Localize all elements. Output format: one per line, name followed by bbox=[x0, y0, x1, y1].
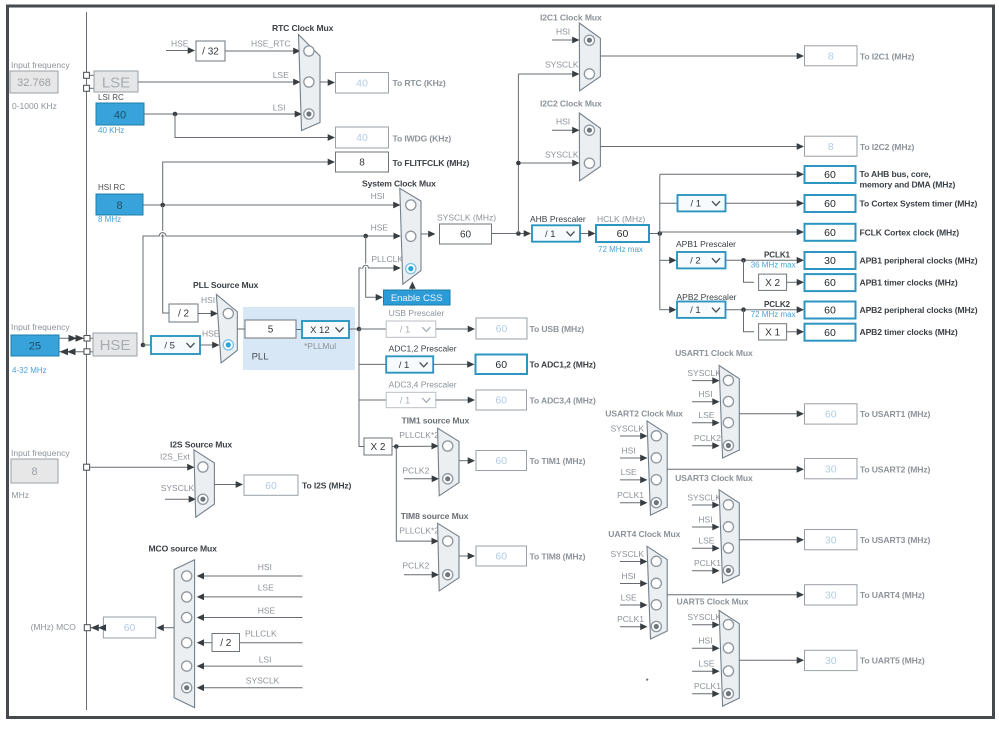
label 0-1000 KHz bbox=[12, 101, 57, 111]
signal labels USART2 bbox=[611, 423, 648, 506]
input box 25 bbox=[11, 335, 59, 356]
label PCLK1 bbox=[764, 251, 791, 260]
svg-text:LSE: LSE bbox=[102, 75, 130, 92]
output box APB2 timer bbox=[805, 324, 856, 341]
svg-text:To I2C1 (MHz): To I2C1 (MHz) bbox=[860, 52, 915, 62]
wire X1 to APB2 timer box bbox=[787, 328, 804, 335]
label To UART4 (MHz) bbox=[860, 590, 925, 600]
svg-text:HSI: HSI bbox=[698, 636, 712, 646]
label To UART5 (MHz) bbox=[860, 656, 925, 666]
svg-text:I2S Source Mux: I2S Source Mux bbox=[170, 440, 232, 450]
svg-text:60: 60 bbox=[124, 622, 136, 634]
label (MHz) MCO bbox=[31, 622, 77, 632]
wire to FCLK box bbox=[660, 229, 804, 236]
label PLLCLK*2 (TIM1) bbox=[399, 430, 439, 440]
svg-text:SYSCLK: SYSCLK bbox=[246, 676, 280, 686]
svg-text:HSI RC: HSI RC bbox=[98, 183, 125, 192]
label HSE bbox=[371, 223, 389, 233]
label UART4 Clock Mux bbox=[608, 529, 680, 539]
wire MCO mux to box bbox=[157, 624, 175, 631]
wire HSE to div5 bbox=[143, 344, 151, 346]
wire HSI to div2 bbox=[158, 205, 170, 313]
svg-text:To USB (MHz): To USB (MHz) bbox=[530, 324, 585, 334]
output box To AHB bbox=[805, 166, 856, 183]
wire 25 to HSE port bbox=[59, 335, 84, 342]
svg-text:HSE: HSE bbox=[100, 337, 131, 354]
svg-text:PCLK2: PCLK2 bbox=[402, 561, 429, 571]
label HSE_RTC bbox=[251, 39, 291, 49]
svg-text:HSI: HSI bbox=[556, 27, 570, 37]
wire LSE to RTC mux bbox=[138, 79, 301, 86]
wire 5 to X12 bbox=[296, 329, 302, 331]
svg-text:LSI RC: LSI RC bbox=[98, 93, 124, 102]
label USART3 Clock Mux bbox=[675, 473, 753, 483]
value box PLL input 5 bbox=[245, 320, 296, 338]
svg-text:8 MHz: 8 MHz bbox=[98, 215, 121, 224]
input box 32.768 bbox=[10, 71, 58, 93]
svg-text:PLLCLK: PLLCLK bbox=[371, 254, 403, 264]
svg-text:To USART3 (MHz): To USART3 (MHz) bbox=[860, 535, 931, 545]
svg-text:To TIM1 (MHz): To TIM1 (MHz) bbox=[530, 456, 586, 466]
svg-text:PCLK1: PCLK1 bbox=[694, 558, 721, 568]
output box To UART5 bbox=[805, 650, 858, 670]
wire PCLK2 to X1 bbox=[744, 310, 755, 332]
wire HSE port out bbox=[59, 348, 84, 355]
oscillator LSE bbox=[94, 71, 138, 92]
svg-text:memory and DMA (MHz): memory and DMA (MHz) bbox=[860, 180, 956, 190]
svg-text:LSE: LSE bbox=[621, 467, 637, 477]
svg-text:/ 1: / 1 bbox=[690, 199, 701, 210]
label SYSCLK (I2C1) bbox=[545, 60, 579, 70]
mux USART2 Clock Mux bbox=[647, 421, 667, 515]
dropdown ADC12 /1 bbox=[386, 356, 433, 372]
svg-text:60: 60 bbox=[824, 227, 836, 239]
label Input frequency (LSE) bbox=[11, 60, 70, 70]
dropdown /5 prediv bbox=[151, 336, 200, 354]
svg-text:LSE: LSE bbox=[258, 583, 274, 593]
label HSI (MCO) bbox=[258, 562, 272, 572]
svg-text:TIM1 source Mux: TIM1 source Mux bbox=[402, 416, 470, 426]
label ADC34 Prescaler bbox=[389, 380, 457, 390]
label 72 MHz max (HCLK) bbox=[598, 245, 643, 254]
output box To ADC12 bbox=[476, 355, 528, 375]
svg-text:HSI: HSI bbox=[698, 514, 712, 524]
chip boundary line bbox=[86, 12, 88, 710]
wire PLLCLK to div2 MCO bbox=[197, 639, 212, 646]
wire div2 to pll mux bbox=[198, 310, 218, 317]
svg-text:60: 60 bbox=[824, 169, 836, 181]
label PLLCLK*2 (TIM8) bbox=[399, 526, 439, 536]
wire LSI to RTC mux bbox=[144, 111, 302, 118]
wire HSI stub I2C2 bbox=[552, 127, 580, 134]
svg-text:To RTC (KHz): To RTC (KHz) bbox=[393, 78, 446, 88]
output box To TIM1 bbox=[476, 451, 527, 471]
svg-text:30: 30 bbox=[824, 255, 836, 267]
svg-text:8: 8 bbox=[828, 141, 834, 153]
label PLLCLK bbox=[371, 254, 403, 264]
label AHB Prescaler bbox=[530, 214, 586, 224]
output box APB1 peripheral bbox=[805, 252, 856, 269]
mux I2C2 Clock Mux bbox=[579, 113, 600, 181]
value box SYSCLK bbox=[440, 224, 492, 244]
label RTC Clock Mux bbox=[272, 23, 334, 33]
svg-text:/ 2: / 2 bbox=[178, 309, 190, 320]
svg-text:ADC1,2 Prescaler: ADC1,2 Prescaler bbox=[389, 344, 457, 354]
svg-text:HSI: HSI bbox=[556, 117, 570, 127]
wire I2S_Ext to mux bbox=[90, 464, 195, 471]
wire HSI to FLITFCLK bbox=[163, 159, 335, 205]
label To IWDG (KHz) bbox=[393, 134, 452, 144]
label MCO source Mux bbox=[149, 544, 218, 554]
label HSE stub bbox=[171, 39, 189, 49]
svg-text:SYSCLK: SYSCLK bbox=[545, 150, 579, 160]
mux TIM8 source Mux bbox=[438, 523, 459, 591]
divider /2 (MCO) bbox=[212, 634, 240, 652]
svg-text:Input frequency: Input frequency bbox=[11, 322, 70, 332]
output box To UART4 bbox=[805, 585, 858, 605]
svg-text:HSI: HSI bbox=[698, 389, 712, 399]
svg-text:APB2 peripheral clocks (MHz): APB2 peripheral clocks (MHz) bbox=[860, 305, 978, 315]
label To RTC (KHz) bbox=[393, 78, 446, 88]
svg-text:I2C1 Clock Mux: I2C1 Clock Mux bbox=[540, 13, 602, 23]
output box To I2C2 bbox=[805, 136, 858, 156]
label PLLCLK (MCO) bbox=[245, 629, 277, 639]
output box To RTC bbox=[336, 73, 389, 94]
svg-text:8: 8 bbox=[31, 466, 37, 478]
wire LSE to MCO bbox=[197, 594, 303, 601]
mux UART5 Clock Mux bbox=[719, 611, 739, 707]
wire ADC34 to box bbox=[436, 397, 475, 404]
label UART5 Clock Mux bbox=[677, 597, 749, 607]
svg-text:SYSCLK: SYSCLK bbox=[545, 60, 579, 70]
svg-text:32.768: 32.768 bbox=[17, 77, 51, 89]
wire USART2 mux to box bbox=[667, 466, 804, 473]
svg-text:30: 30 bbox=[825, 589, 837, 601]
output box To Cortex timer bbox=[805, 195, 856, 212]
svg-text:To USART2 (MHz): To USART2 (MHz) bbox=[860, 465, 931, 475]
wire AHB to HCLK bbox=[580, 230, 596, 237]
label PCLK2 (TIM1) bbox=[402, 466, 429, 476]
wire MCO box to port bbox=[90, 624, 106, 631]
wire trunk to USB prescaler bbox=[359, 328, 386, 330]
mux I2C1 Clock Mux bbox=[579, 23, 600, 91]
wire X2 to TIM1 mux bbox=[392, 443, 439, 450]
label FCLK Cortex clock bbox=[860, 228, 960, 238]
wire pll mux to mul input bbox=[237, 328, 245, 330]
svg-text:/ 32: / 32 bbox=[202, 47, 219, 58]
wire X2 to TIM8 mux bbox=[396, 447, 439, 545]
svg-text:To AHB bus, core,: To AHB bus, core, bbox=[860, 169, 931, 179]
label To TIM1 (MHz) bbox=[530, 456, 586, 466]
label HSI (pll) bbox=[201, 295, 215, 305]
svg-text:APB1 peripheral clocks (MHz): APB1 peripheral clocks (MHz) bbox=[860, 256, 978, 266]
label I2C2 Clock Mux bbox=[540, 99, 602, 109]
divider /2 (PLL) bbox=[169, 304, 198, 322]
svg-text:USART3 Clock Mux: USART3 Clock Mux bbox=[675, 473, 753, 483]
svg-text:60: 60 bbox=[495, 395, 507, 407]
svg-text:/ 1: / 1 bbox=[690, 305, 701, 316]
output box To USART2 bbox=[805, 459, 858, 479]
svg-text:Enable CSS: Enable CSS bbox=[391, 293, 443, 304]
wire HSE to MCO bbox=[197, 614, 303, 621]
wire cortex to box bbox=[726, 200, 805, 207]
svg-text:25: 25 bbox=[29, 341, 41, 353]
output box To USART1 bbox=[805, 404, 858, 424]
svg-text:Input frequency: Input frequency bbox=[11, 448, 70, 458]
svg-text:Input frequency: Input frequency bbox=[11, 60, 70, 70]
svg-text:60: 60 bbox=[824, 277, 836, 289]
oscillator HSE bbox=[93, 333, 137, 356]
svg-text:HSI: HSI bbox=[622, 571, 636, 581]
svg-text:HSI: HSI bbox=[622, 445, 636, 455]
wire trunk to ADC12 prescaler bbox=[359, 363, 386, 365]
svg-text:LSE: LSE bbox=[621, 592, 637, 602]
wire SYSCLK to I2C2 bbox=[518, 160, 579, 167]
svg-text:X 1: X 1 bbox=[765, 327, 780, 338]
output box To TIM8 bbox=[476, 546, 527, 566]
wire SYSCLK to MCO bbox=[197, 684, 303, 691]
wire PCLK1 bbox=[726, 257, 805, 264]
svg-text:To UART4 (MHz): To UART4 (MHz) bbox=[860, 590, 925, 600]
port LSE in bbox=[84, 72, 94, 78]
svg-text:36 MHz max: 36 MHz max bbox=[751, 261, 796, 270]
wire CSS from HSE bbox=[366, 236, 383, 301]
label SYSCLK (MHz) bbox=[437, 213, 496, 223]
wire SYSCLK to AHB prescaler bbox=[492, 230, 532, 237]
svg-text:8: 8 bbox=[828, 50, 834, 62]
output box MCO bbox=[103, 617, 155, 638]
port HSE out bbox=[84, 349, 94, 355]
svg-text:0-1000 KHz: 0-1000 KHz bbox=[12, 101, 57, 111]
label To ADC12 (MHz) bbox=[530, 360, 596, 370]
oscillator LSI bbox=[96, 103, 144, 125]
svg-text:40: 40 bbox=[356, 132, 368, 144]
svg-text:PLLCLK*2: PLLCLK*2 bbox=[399, 526, 439, 536]
svg-text:APB2 Prescaler: APB2 Prescaler bbox=[677, 292, 737, 302]
label APB2 peripheral clocks bbox=[860, 305, 978, 315]
label HCLK (MHz) bbox=[597, 214, 645, 224]
wire LSI to IWDG bbox=[175, 114, 335, 141]
svg-text:To FLITFCLK (MHz): To FLITFCLK (MHz) bbox=[393, 158, 470, 168]
svg-text:To ADC1,2 (MHz): To ADC1,2 (MHz) bbox=[530, 360, 596, 370]
svg-text:HSI: HSI bbox=[201, 295, 215, 305]
label To I2C1 (MHz) bbox=[860, 52, 915, 62]
svg-text:60: 60 bbox=[824, 198, 836, 210]
label Input frequency (I2S) bbox=[11, 448, 70, 458]
svg-text:30: 30 bbox=[825, 534, 837, 546]
label SYSCLK (I2C2) bbox=[545, 150, 579, 160]
svg-text:SYSCLK (MHz): SYSCLK (MHz) bbox=[437, 213, 496, 223]
multiplier X2 (APB1) bbox=[759, 274, 787, 290]
svg-text:60: 60 bbox=[495, 455, 507, 467]
svg-text:SYSCLK: SYSCLK bbox=[687, 492, 721, 502]
signal labels USART1 bbox=[687, 368, 721, 449]
svg-text:60: 60 bbox=[460, 230, 472, 241]
wire TIM8 mux to box bbox=[459, 553, 475, 560]
svg-text:LSE: LSE bbox=[698, 659, 714, 669]
wire X12 out bbox=[349, 327, 361, 332]
svg-text:PCLK2: PCLK2 bbox=[764, 300, 791, 309]
svg-text:5: 5 bbox=[268, 325, 274, 336]
svg-text:AHB Prescaler: AHB Prescaler bbox=[530, 214, 586, 224]
wire I2C1 mux to box bbox=[600, 53, 804, 60]
label To TIM8 (MHz) bbox=[530, 552, 586, 562]
wire SYSCLK to I2C1 bbox=[518, 71, 579, 78]
svg-text:I2C2 Clock Mux: I2C2 Clock Mux bbox=[540, 99, 602, 109]
svg-text:PLLCLK*2: PLLCLK*2 bbox=[399, 430, 439, 440]
input box 8 bbox=[11, 459, 58, 483]
wire HSE to system mux bbox=[141, 233, 401, 348]
svg-text:HSE: HSE bbox=[202, 329, 220, 339]
label Input frequency (HSE) bbox=[11, 322, 70, 332]
svg-text:/ 1: / 1 bbox=[545, 229, 556, 240]
label HSE (MCO) bbox=[258, 606, 276, 616]
svg-text:HSE: HSE bbox=[171, 39, 189, 49]
wire TIM1 mux to box bbox=[459, 457, 475, 464]
svg-text:SYSCLK: SYSCLK bbox=[161, 483, 195, 493]
wire PLLCLK to system mux bbox=[359, 265, 401, 329]
wire div32 to RTC mux bbox=[225, 48, 301, 55]
wire I2C2 mux to box bbox=[600, 143, 804, 150]
wire HCLK trunk bbox=[649, 174, 662, 309]
wire SYSCLK stub I2S bbox=[165, 496, 196, 503]
button Enable CSS bbox=[384, 290, 451, 305]
svg-text:MCO source Mux: MCO source Mux bbox=[149, 544, 218, 554]
svg-text:MHz: MHz bbox=[12, 490, 29, 500]
svg-text:PCLK2: PCLK2 bbox=[694, 433, 721, 443]
svg-text:I2S_Ext: I2S_Ext bbox=[160, 452, 190, 462]
svg-text:To TIM8 (MHz): To TIM8 (MHz) bbox=[530, 552, 586, 562]
label System Clock Mux bbox=[362, 179, 436, 189]
wire UART5 mux to box bbox=[739, 657, 804, 664]
svg-text:System Clock Mux: System Clock Mux bbox=[362, 179, 436, 189]
svg-text:60: 60 bbox=[265, 480, 277, 492]
svg-text:72 MHz max: 72 MHz max bbox=[751, 310, 796, 319]
wire X2 to APB1 timer box bbox=[787, 279, 804, 286]
label PLL bbox=[252, 352, 269, 363]
svg-text:60: 60 bbox=[496, 323, 508, 335]
svg-text:X 2: X 2 bbox=[370, 442, 385, 453]
svg-text:40: 40 bbox=[114, 110, 126, 122]
wire PCLK2 stub TIM1 bbox=[404, 475, 439, 482]
mux UART4 Clock Mux bbox=[647, 546, 667, 639]
label To Cortex System timer bbox=[860, 199, 978, 209]
label LSI (MCO) bbox=[259, 655, 272, 665]
output box To ADC34 bbox=[476, 390, 527, 410]
PLL block background bbox=[243, 307, 355, 370]
label USB Prescaler bbox=[389, 308, 445, 318]
stray mark bbox=[646, 679, 648, 681]
label HSI (I2C1) bbox=[556, 27, 570, 37]
label ADC12 Prescaler bbox=[389, 344, 457, 354]
port MCO bbox=[84, 625, 90, 631]
svg-text:APB2 timer clocks (MHz): APB2 timer clocks (MHz) bbox=[860, 327, 958, 337]
signal labels USART3 bbox=[687, 492, 721, 574]
svg-text:40: 40 bbox=[356, 77, 368, 89]
wire USB prescaler to box bbox=[436, 326, 475, 333]
port HSE in bbox=[84, 336, 94, 342]
mux USART3 Clock Mux bbox=[719, 490, 739, 583]
label HSI (I2C2) bbox=[556, 117, 570, 127]
label 8 MHz bbox=[98, 215, 121, 224]
svg-text:/ 1: / 1 bbox=[400, 325, 411, 336]
svg-text:HSE_RTC: HSE_RTC bbox=[251, 39, 291, 49]
svg-text:To ADC3,4 (MHz): To ADC3,4 (MHz) bbox=[530, 396, 596, 406]
svg-text:To UART5 (MHz): To UART5 (MHz) bbox=[860, 656, 925, 666]
svg-text:*PLLMul: *PLLMul bbox=[304, 341, 336, 351]
wire PLLCLK right of div2 bbox=[240, 642, 303, 644]
output box To USART3 bbox=[805, 530, 858, 550]
wire PCLK2 stub TIM8 bbox=[404, 571, 439, 578]
dropdown ADC34 /1 bbox=[386, 392, 436, 407]
divider /32 bbox=[196, 41, 225, 61]
svg-text:TIM8 source Mux: TIM8 source Mux bbox=[401, 511, 469, 521]
label To USART1 (MHz) bbox=[860, 409, 931, 419]
svg-text:60: 60 bbox=[495, 551, 507, 563]
label To USART3 (MHz) bbox=[860, 535, 931, 545]
wire PLL out trunk bbox=[359, 329, 364, 447]
output box APB2 peripheral bbox=[805, 302, 856, 319]
wire SYSCLK trunk up bbox=[516, 74, 521, 234]
wire LSI to MCO bbox=[197, 663, 303, 670]
svg-text:60: 60 bbox=[824, 305, 836, 317]
svg-text:4-32 MHz: 4-32 MHz bbox=[12, 366, 47, 375]
mux System Clock Mux bbox=[400, 188, 421, 284]
label To I2S (MHz) bbox=[302, 481, 352, 491]
oscillator HSI bbox=[96, 194, 143, 215]
label LSE bbox=[273, 70, 289, 80]
label TIM1 source Mux bbox=[402, 416, 470, 426]
dropdown Cortex /1 bbox=[678, 195, 726, 211]
svg-text:PLL Source Mux: PLL Source Mux bbox=[193, 280, 259, 290]
svg-text:/ 2: / 2 bbox=[220, 638, 232, 649]
label HSE (pll) bbox=[202, 329, 220, 339]
mux RTC Clock Mux bbox=[299, 35, 321, 131]
wire trunk to ADC34 prescaler bbox=[359, 399, 386, 401]
svg-text:To I2C2 (MHz): To I2C2 (MHz) bbox=[860, 142, 915, 152]
svg-text:PLLCLK: PLLCLK bbox=[245, 629, 277, 639]
label 72 MHz max (PCLK2) bbox=[751, 310, 796, 319]
svg-text:ADC3,4 Prescaler: ADC3,4 Prescaler bbox=[389, 380, 457, 390]
mux I2S Source Mux bbox=[194, 450, 215, 517]
wire I2S mux to box bbox=[214, 481, 243, 488]
wire HSI to MCO bbox=[197, 573, 303, 580]
svg-text:RTC Clock Mux: RTC Clock Mux bbox=[272, 23, 334, 33]
signal labels UART5 bbox=[687, 612, 721, 697]
svg-text:LSE: LSE bbox=[698, 410, 714, 420]
svg-text:PCLK1: PCLK1 bbox=[764, 251, 791, 260]
svg-text:USART1 Clock Mux: USART1 Clock Mux bbox=[675, 348, 753, 358]
svg-text:/ 1: / 1 bbox=[399, 360, 410, 371]
svg-text:LSE: LSE bbox=[273, 70, 289, 80]
output box To I2C1 bbox=[805, 46, 858, 66]
svg-text:/ 2: / 2 bbox=[690, 256, 701, 267]
svg-text:HCLK (MHz): HCLK (MHz) bbox=[597, 214, 645, 224]
label LSI RC bbox=[98, 93, 124, 102]
port I2S_Ext bbox=[84, 464, 90, 470]
label To USART2 (MHz) bbox=[860, 465, 931, 475]
label USART2 Clock Mux bbox=[605, 409, 683, 419]
label To USB (MHz) bbox=[530, 324, 585, 334]
svg-text:SYSCLK: SYSCLK bbox=[611, 423, 645, 433]
label USART1 Clock Mux bbox=[675, 348, 753, 358]
wire to AHB bus box bbox=[660, 171, 804, 178]
svg-text:USART2 Clock Mux: USART2 Clock Mux bbox=[605, 409, 683, 419]
svg-text:30: 30 bbox=[825, 463, 837, 475]
label To AHB bus core memory DMA bbox=[860, 169, 956, 190]
multiplier X1 (APB2) bbox=[759, 324, 787, 340]
svg-text:HSI: HSI bbox=[371, 191, 385, 201]
